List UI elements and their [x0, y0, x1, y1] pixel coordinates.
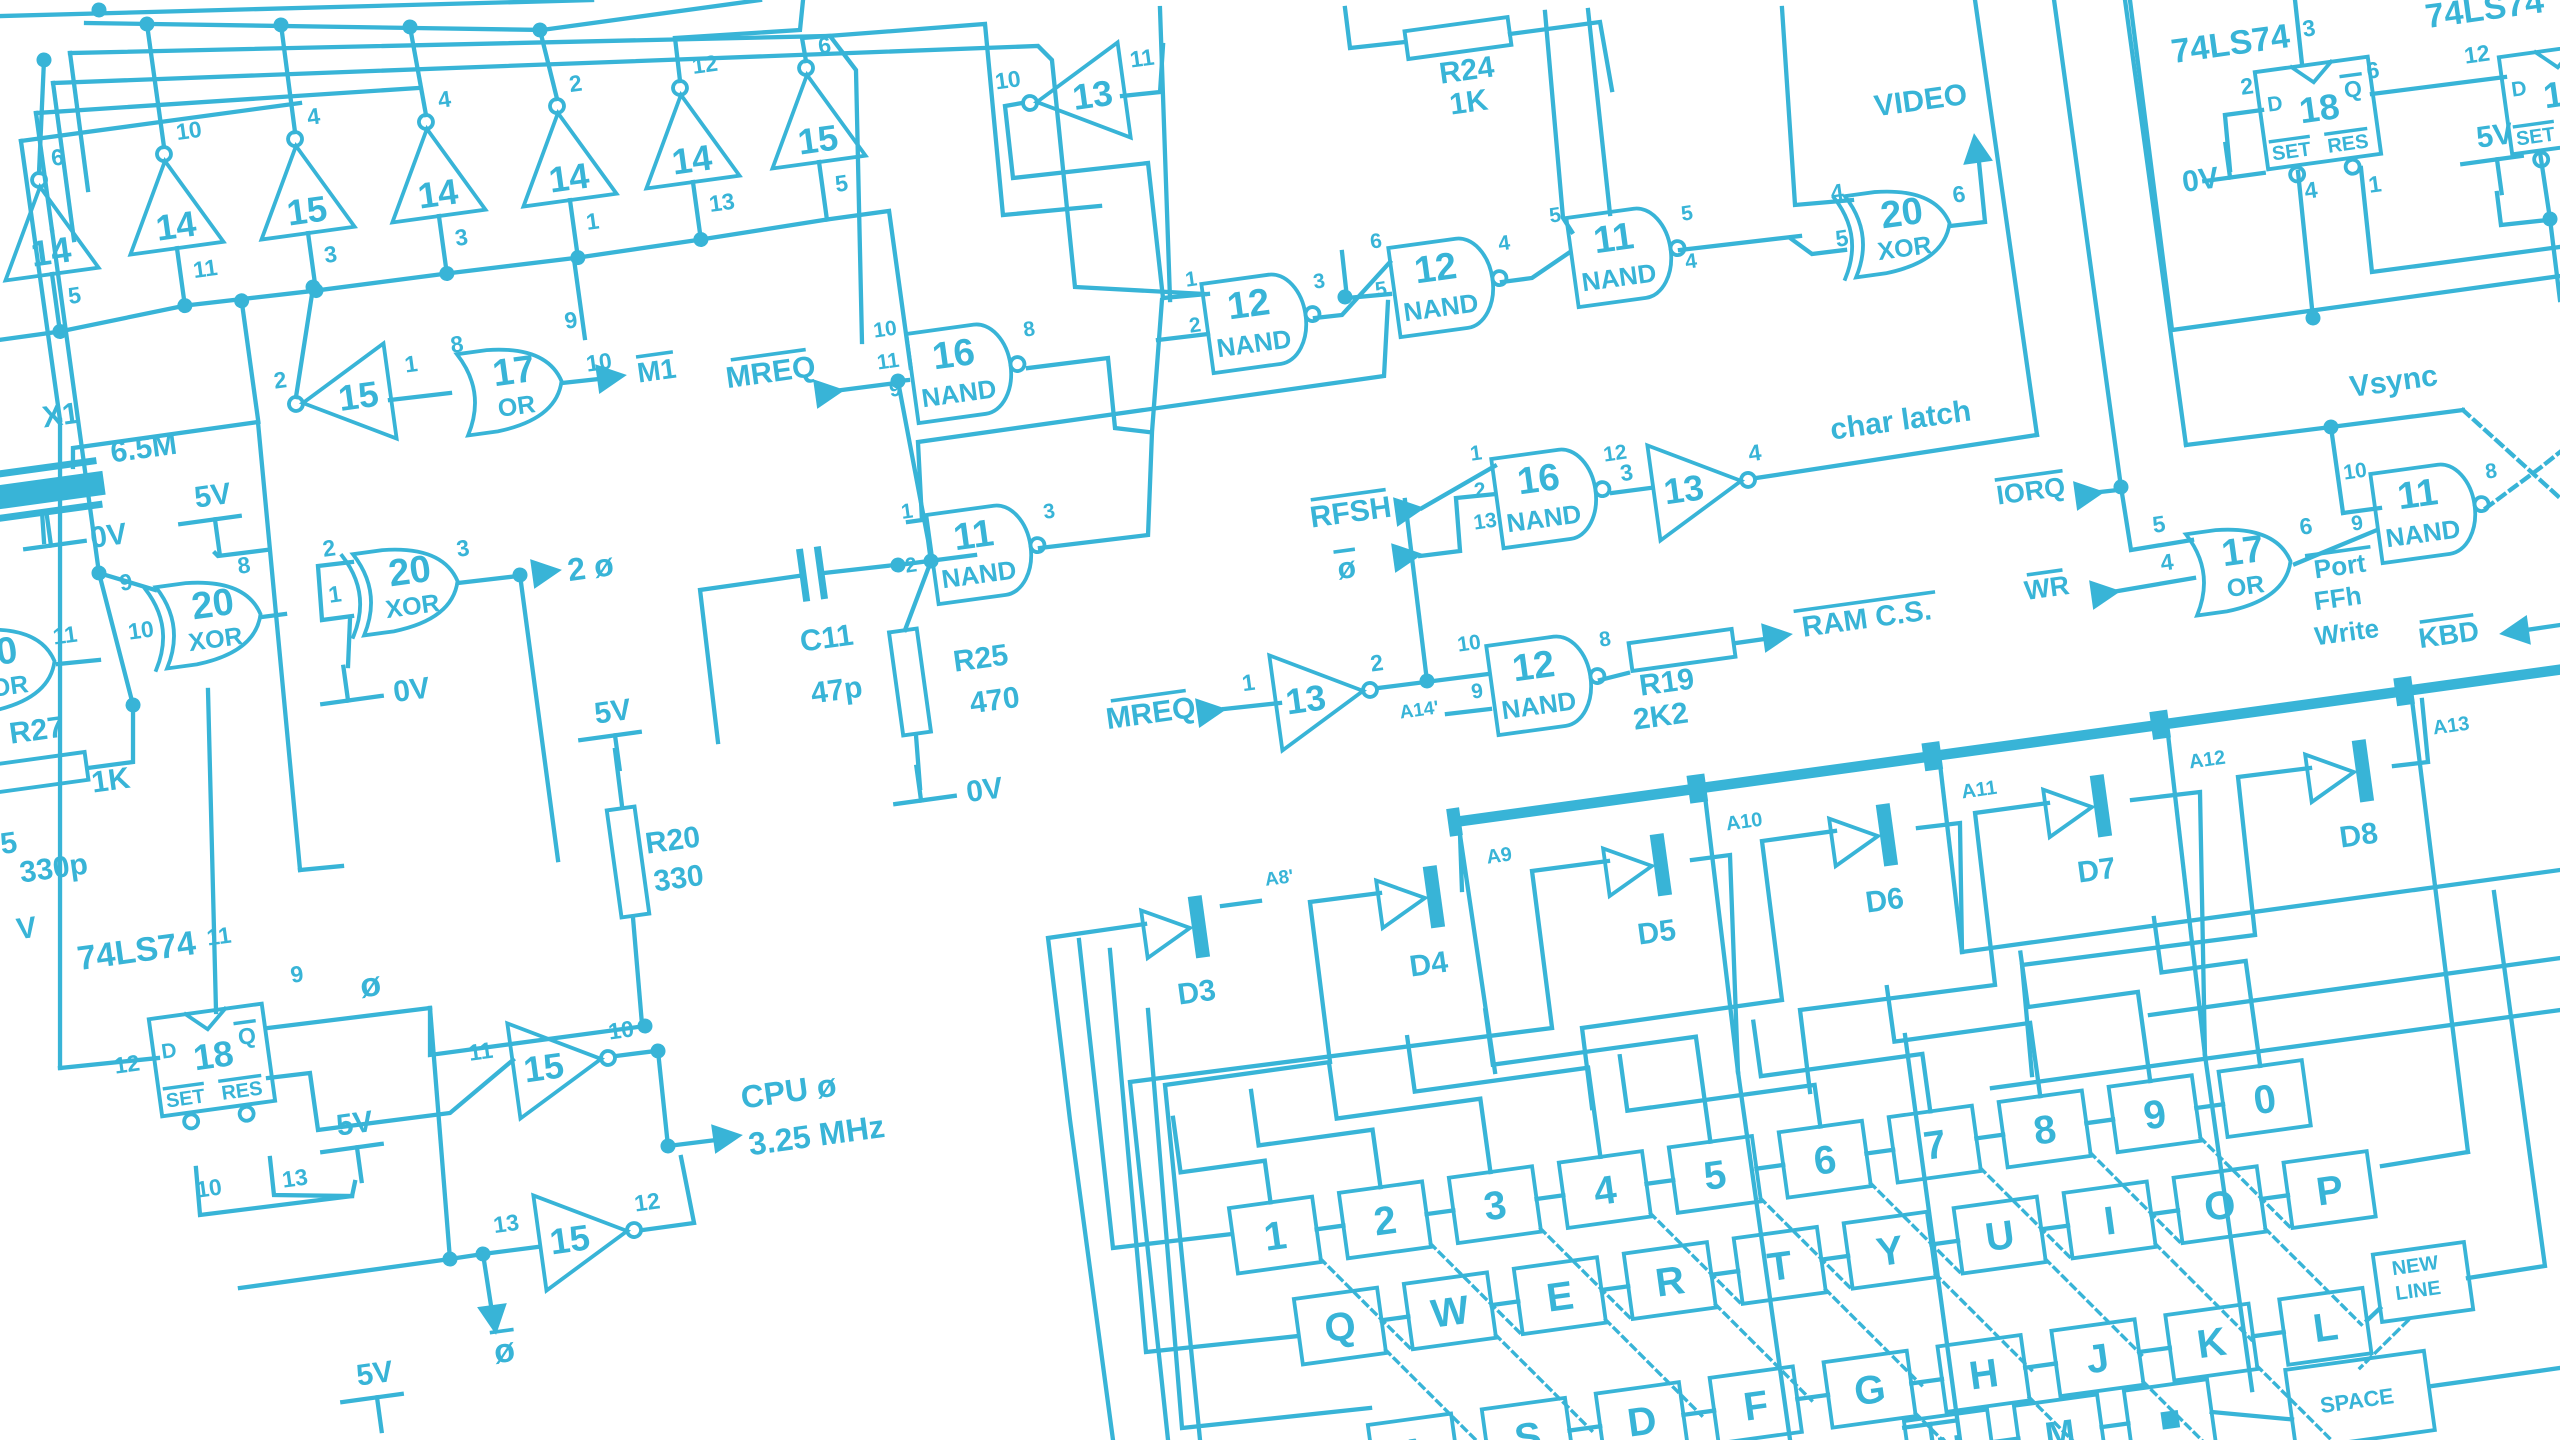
wire D6 anode route [1559, 831, 1868, 1108]
wire nested right 1 [2150, 958, 2560, 1015]
svg-text:U: U [1983, 1213, 2018, 1261]
pin 5 [1548, 203, 1563, 227]
wire MREQ to junction [842, 383, 896, 391]
pin 8c [1598, 627, 1613, 651]
wire fan tap to inverter [410, 26, 426, 115]
junction fan [91, 2, 108, 19]
svg-text:18: 18 [191, 1032, 236, 1078]
wire R20 bottom [627, 918, 647, 1024]
inverter 14 [0, 141, 107, 338]
wire 5V right down [2497, 187, 2548, 227]
key H [1937, 1335, 2029, 1412]
wire inverter 15b feed [802, 1, 1100, 243]
wire nested right 2 [1992, 1010, 2560, 1089]
wire fan tap to inverter [24, 60, 59, 173]
wire 16b out [1612, 488, 1650, 494]
pin 8d [2484, 459, 2499, 483]
rail to row A [1125, 987, 1370, 1433]
pin 9 [563, 306, 579, 334]
junction A14 [1419, 673, 1436, 690]
junction tap [273, 16, 290, 33]
pin 4e [2159, 548, 2175, 576]
arrow MREQ bottom [1195, 694, 1229, 728]
svg-text:OR: OR [496, 390, 537, 423]
XOR gate 20c [1834, 183, 1955, 279]
label A10 [1725, 809, 1764, 836]
wire char latch [1755, 435, 2037, 478]
5V supply bottom [337, 1354, 407, 1436]
label 74LS74 b [2423, 0, 2546, 36]
label A14' [1398, 697, 1440, 723]
svg-text:18: 18 [2297, 85, 2342, 131]
svg-text:D3: D3 [1175, 974, 1218, 1012]
svg-text:20: 20 [189, 581, 237, 628]
junction [125, 697, 142, 714]
svg-text:14: 14 [546, 155, 591, 201]
key 6 [1779, 1121, 1871, 1198]
key 5 [1669, 1136, 1761, 1213]
svg-text:15: 15 [284, 188, 329, 234]
wire to phi-bar arrow [483, 1254, 492, 1312]
inverter 15 [490, 1178, 670, 1296]
key 1 [1229, 1197, 1321, 1274]
wire loop bottom [300, 864, 342, 872]
label Port [2307, 547, 2373, 585]
junction R25 [923, 553, 940, 570]
pin 10f [194, 1173, 223, 1202]
0V ground under crystal [21, 501, 129, 564]
svg-text:O: O [2201, 1182, 2238, 1230]
wire fan tap to inverter [147, 24, 164, 147]
wire D8 cathode [2386, 700, 2431, 767]
bus fan line 2 (dotted taps) [86, 0, 760, 92]
svg-text:17: 17 [490, 348, 538, 395]
keyboard column a [1738, 1072, 1790, 1440]
pin 4a [2303, 176, 2319, 204]
key F [1710, 1366, 1802, 1440]
wire D5 anode rail [1098, 861, 1678, 1440]
label 74LS74 a [2169, 17, 2292, 71]
junction pin4 [2305, 310, 2322, 327]
wire D 18a [2222, 110, 2269, 170]
label M1 [635, 352, 678, 389]
label R27 [7, 711, 66, 751]
left vertical through junctions [52, 228, 133, 707]
svg-text:10: 10 [993, 65, 1022, 94]
resistor R27 [0, 752, 88, 794]
svg-text:330: 330 [652, 859, 706, 899]
wire D7 anode route [1775, 803, 2082, 1092]
wire pin4 down [2293, 172, 2318, 318]
bus junction A11 [1921, 741, 1943, 771]
junction [305, 279, 322, 296]
wire NAND12c to R19 [1600, 673, 1629, 680]
arrow 2-phi [530, 555, 564, 589]
5V supply R20 [575, 692, 645, 774]
pin 9d [2350, 511, 2365, 535]
svg-text:H: H [1966, 1351, 2001, 1399]
svg-text:D7: D7 [2075, 852, 2118, 890]
wire D7 cathode [2132, 791, 2236, 1060]
pin 6c [1951, 180, 1967, 208]
key 3 [1449, 1166, 1541, 1243]
bus fan line 4 to NAND12a [53, 0, 1205, 446]
wire OR17b to NAND11c [2292, 530, 2380, 564]
wire 2phi down [519, 575, 560, 860]
wire to 12a pin2 [1158, 333, 1208, 341]
wire SPACE right [2432, 1368, 2560, 1386]
svg-text:11: 11 [51, 621, 79, 650]
label A11 [1960, 777, 1998, 804]
junction tap [402, 18, 419, 35]
pin 4 [1497, 231, 1512, 255]
key 4 [1559, 1151, 1651, 1228]
key M [2014, 1394, 2106, 1440]
svg-text:15: 15 [547, 1216, 592, 1262]
pin 2r [1473, 478, 1488, 502]
svg-text:Q: Q [1322, 1303, 1359, 1351]
wire NAND11a pin1 feedback [887, 302, 1409, 522]
key Y [1844, 1212, 1936, 1289]
wire A13 to key P [2382, 1152, 2469, 1166]
wire A13 down [2406, 700, 2474, 1152]
T stub bottom [1904, 1420, 1956, 1427]
pin 1 [900, 499, 915, 523]
wire XOR 20b output [458, 575, 518, 585]
wire inv15a output up [282, 288, 328, 397]
svg-text:11: 11 [876, 349, 901, 375]
junction C11 [890, 557, 907, 574]
pin 11 [1128, 44, 1156, 73]
key D [1596, 1382, 1688, 1440]
junction R20 [637, 1018, 654, 1035]
inverter 13 [1617, 430, 1772, 545]
junction phi b [442, 1251, 459, 1268]
junction tap [532, 22, 549, 39]
wire Qbar to inv15c [268, 1045, 519, 1137]
wire OR17a output [562, 377, 608, 385]
diode D4 [1375, 865, 1445, 935]
label phi-bar out [491, 1330, 517, 1372]
arrow CPU phi [711, 1120, 745, 1154]
inverter 15 [271, 339, 428, 454]
wire down phi [655, 1051, 671, 1146]
wire IORQ vertical [2054, 0, 2192, 550]
pin 11f [205, 922, 233, 951]
pin 5b [1680, 201, 1695, 225]
label A8' [1264, 866, 1295, 891]
svg-text:1K: 1K [1447, 84, 1490, 122]
key N [1904, 1410, 1996, 1440]
74LS74 flip-flop 18a [2255, 57, 2384, 186]
crystal X1 [0, 460, 107, 520]
svg-text:A9: A9 [1485, 843, 1513, 868]
wire crystal loop top [70, 422, 260, 467]
key E [1514, 1257, 1606, 1334]
label SPACE [2319, 1383, 2396, 1418]
svg-text:11: 11 [1128, 44, 1156, 73]
wire down to crystal loop [242, 301, 259, 422]
pin 8 [236, 551, 252, 579]
key G [1824, 1351, 1916, 1428]
label R24 [1437, 50, 1496, 90]
label CPU phi [739, 1067, 839, 1116]
junction [91, 565, 108, 582]
key 8 [1999, 1090, 2091, 1167]
resistor R25 [889, 629, 931, 736]
resistor R19 [1629, 629, 1736, 671]
label Write [2313, 613, 2381, 652]
XOR gate 20b [342, 541, 463, 637]
pin 5e [2151, 510, 2167, 538]
wire RES down [269, 1148, 352, 1207]
arrow MREQ top [813, 375, 847, 409]
wire A11 branch right [1962, 870, 2560, 953]
svg-text:11: 11 [2395, 471, 2441, 518]
wire vsync vertical [2125, 0, 2187, 445]
left bus vertical 2 [36, 113, 52, 230]
wire vsync down [2331, 427, 2343, 513]
arrow VIDEO [1959, 131, 1993, 165]
wire R24 left [1344, 0, 1405, 49]
label A12 [2188, 747, 2227, 774]
0V ground mid [318, 656, 432, 719]
wire clock 18c from above [172, 690, 251, 1012]
label MREQ top [724, 349, 818, 396]
wire crystal loop right [239, 422, 320, 870]
wire to NAND16a [898, 380, 908, 382]
junction cross [1337, 289, 1354, 306]
pin 2a [2239, 72, 2255, 100]
pin 1 [1184, 267, 1199, 291]
svg-text:10: 10 [174, 116, 203, 145]
wire SET down [194, 1147, 357, 1217]
pin 11 [876, 349, 901, 375]
5V supply near crystal [175, 476, 245, 558]
label KBD [2416, 614, 2480, 654]
wire NEW LINE right up [2416, 892, 2546, 1278]
pin 9f [289, 960, 305, 988]
wire A14 to NAND12c [1447, 708, 1490, 715]
key NEW LINE [2373, 1242, 2473, 1322]
label R19 [1637, 662, 1696, 702]
bus junction A12 [2149, 710, 2171, 740]
wire to CPU arrow [668, 1138, 724, 1146]
label 74LS74 c [75, 924, 198, 978]
svg-text:K: K [2194, 1320, 2229, 1368]
inverter 14 [375, 83, 494, 280]
key K [2165, 1304, 2257, 1381]
wire cross a [1309, 262, 1397, 319]
label FFh [2312, 580, 2363, 616]
key SPACE [2285, 1351, 2435, 1440]
keyboard column b [1904, 1035, 1961, 1440]
label 5 clipped [0, 826, 19, 861]
wire to NAND11a pin2 [898, 554, 975, 565]
junction [176, 297, 193, 314]
inverter 15 [465, 1006, 643, 1124]
NAND gate 11 [1566, 203, 1690, 308]
5V supply FF 18c [317, 1104, 387, 1186]
svg-text:Q: Q [236, 1022, 257, 1050]
wire to OR17 pin9 [574, 258, 585, 338]
label phi mid [358, 965, 384, 1006]
pin 10 [126, 615, 155, 644]
label RFSH [1308, 489, 1394, 534]
pin 10 [872, 317, 898, 343]
diode D3 [1140, 895, 1210, 965]
wire C11 left down [697, 576, 819, 742]
wire ground to XOR [342, 620, 356, 666]
pin 3 [1042, 499, 1057, 523]
inverter 15 [244, 100, 363, 297]
arrow WR [2089, 576, 2123, 610]
wire to NAND11c pin10 [2343, 508, 2380, 513]
inverter 14 [506, 67, 625, 264]
common line under inverters [0, 209, 911, 491]
label 330 [652, 859, 706, 899]
pin 5 [1374, 277, 1389, 301]
label WR [2022, 569, 2071, 606]
wire A9 down [1460, 835, 1495, 1073]
key 7 [1889, 1106, 1981, 1183]
NAND gate 16 [1491, 444, 1615, 549]
pin 2 [904, 553, 919, 577]
diode D5 [1602, 833, 1672, 903]
bus fan line 5 [36, 61, 418, 140]
capacitor C11 [800, 550, 824, 598]
wire to 12a pin1 [1163, 292, 1208, 300]
wire 12b to 11b [1499, 252, 1573, 282]
dashed key links [1321, 1249, 1410, 1358]
label D8 [2337, 817, 2380, 855]
svg-text:10: 10 [1456, 631, 1482, 657]
wire R25 bottom [913, 735, 923, 788]
junction phi c [475, 1246, 492, 1263]
wire vertical from top [1130, 8, 1199, 300]
label 47p [809, 671, 865, 711]
bus junction A10 [1686, 773, 1708, 803]
svg-text:14: 14 [153, 203, 198, 249]
pin 1 [327, 580, 343, 608]
svg-text:13: 13 [1472, 509, 1498, 535]
svg-text:16: 16 [930, 331, 978, 378]
label NEW [2391, 1252, 2440, 1280]
OR gate clipped left [0, 621, 60, 716]
junction phi a [650, 1043, 667, 1060]
label D4 [1407, 946, 1450, 984]
pin 1a [2367, 170, 2383, 198]
svg-text:D8: D8 [2337, 817, 2380, 855]
svg-text:47p: 47p [809, 671, 865, 711]
svg-text:Q: Q [2342, 75, 2363, 103]
svg-text:5V: 5V [354, 1355, 395, 1393]
key S [1482, 1398, 1574, 1440]
wire WR to OR17b [2118, 578, 2195, 591]
svg-text:5V: 5V [192, 477, 233, 515]
label R25 [951, 639, 1010, 679]
keyboard column c [2205, 1055, 2252, 1390]
wire D4 anode rail [1129, 892, 1450, 1440]
svg-text:20: 20 [386, 548, 434, 595]
NAND gate 16 [906, 319, 1030, 424]
label MREQ bottom [1104, 690, 1198, 737]
pin 13r [1472, 509, 1498, 535]
5V supply right [2457, 116, 2527, 198]
svg-text:10: 10 [2342, 459, 2368, 485]
pin 6 [1369, 229, 1384, 253]
inverter 14 [113, 115, 232, 312]
svg-text:W: W [1428, 1288, 1472, 1337]
wire D8 anode route [1995, 767, 2346, 1075]
svg-text:OR: OR [0, 670, 30, 703]
arrow KBD [2497, 615, 2531, 649]
wire XOR20c to VIDEO [1941, 152, 1988, 227]
svg-text:12: 12 [690, 50, 719, 79]
key row links [1317, 1226, 1344, 1230]
label char latch [1828, 395, 1973, 447]
label 1K [89, 762, 132, 800]
wire phi to NAND16b [1413, 493, 1502, 557]
label LINE [2394, 1277, 2442, 1305]
pin 6a [2365, 56, 2381, 84]
wire NAND16a output [1028, 353, 1148, 447]
wire inv15a input [390, 392, 450, 402]
pin 10d [2342, 459, 2368, 485]
key 9 [2109, 1075, 2201, 1152]
key L [2279, 1288, 2371, 1365]
wire D3 anode rail [1044, 924, 1214, 1440]
left bus vertical 1 [21, 141, 60, 420]
junction [438, 265, 455, 282]
key link to SPACE [2212, 1401, 2292, 1430]
resistor R20 [607, 807, 649, 918]
wire left loop 18a [2127, 0, 2560, 330]
svg-text:D: D [2266, 92, 2284, 117]
svg-text:5V: 5V [2474, 117, 2515, 155]
pin 8 [449, 330, 465, 358]
diode D7 [2042, 774, 2112, 844]
pin 12f [112, 1049, 141, 1078]
key O [2174, 1166, 2266, 1243]
svg-text:D: D [2510, 77, 2528, 102]
pin 12b [2462, 39, 2491, 68]
label Vsync [2348, 359, 2440, 404]
label X1 [40, 397, 81, 435]
wire OR out [58, 658, 99, 665]
OR gate 17a [457, 341, 567, 436]
svg-text:0V: 0V [964, 771, 1005, 809]
wire 11b to XOR20c [1680, 233, 1800, 252]
wire NAND11a output up [1009, 300, 1194, 550]
label 6.5M [108, 428, 179, 470]
wire from top to XOR20c [1768, 2, 1852, 208]
junction IORQ [2113, 479, 2130, 496]
key ■ [2124, 1379, 2216, 1440]
wire char latch up [1975, 0, 2037, 435]
diode D6 [1828, 803, 1898, 873]
label VIDEO [1872, 78, 1969, 123]
pin 4b [1684, 249, 1699, 273]
svg-text:OR: OR [2225, 570, 2266, 603]
svg-text:0V: 0V [391, 671, 432, 709]
arrow phi-bar out [477, 1303, 511, 1337]
pin 5c [1834, 224, 1850, 252]
wire vertical pair a [1535, 12, 1575, 233]
wire cross b [1341, 246, 1390, 300]
wire vertical pair b [1582, 10, 1616, 214]
label 330p [18, 848, 90, 890]
